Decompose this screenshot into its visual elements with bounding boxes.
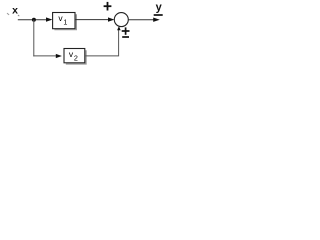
- svg-text:x: x: [12, 5, 18, 17]
- block V2 shadow: [66, 50, 87, 64]
- node junction dot: [32, 18, 36, 22]
- wire V1 to summing junction: [76, 19, 109, 21]
- arrowhead output y: [153, 18, 160, 22]
- svg-text:2: 2: [74, 53, 78, 62]
- block V1: [53, 13, 75, 29]
- wire input x to V1: [18, 19, 47, 21]
- block V2: [64, 49, 85, 63]
- wire junction to V2: [33, 55, 57, 57]
- arrowhead into V2: [56, 54, 62, 58]
- block V1 shadow: [54, 14, 77, 30]
- wire junction down: [33, 20, 35, 57]
- label + (plus at top input): [104, 2, 112, 11]
- svg-text:1: 1: [63, 18, 67, 27]
- wire output to y: [128, 19, 153, 21]
- node x (input label): [7, 5, 19, 17]
- arrowhead into V1: [46, 17, 52, 21]
- wire V2 to summing junction bottom: [85, 29, 119, 56]
- summing junction circle: [114, 13, 128, 27]
- node y (output label, underlined vector): [154, 1, 163, 15]
- svg-text:y: y: [156, 1, 163, 13]
- label ± (plus/minus at bottom input): [122, 27, 130, 37]
- arrowhead up into summing junction: [117, 26, 121, 30]
- arrowhead into summing junction: [108, 17, 114, 21]
